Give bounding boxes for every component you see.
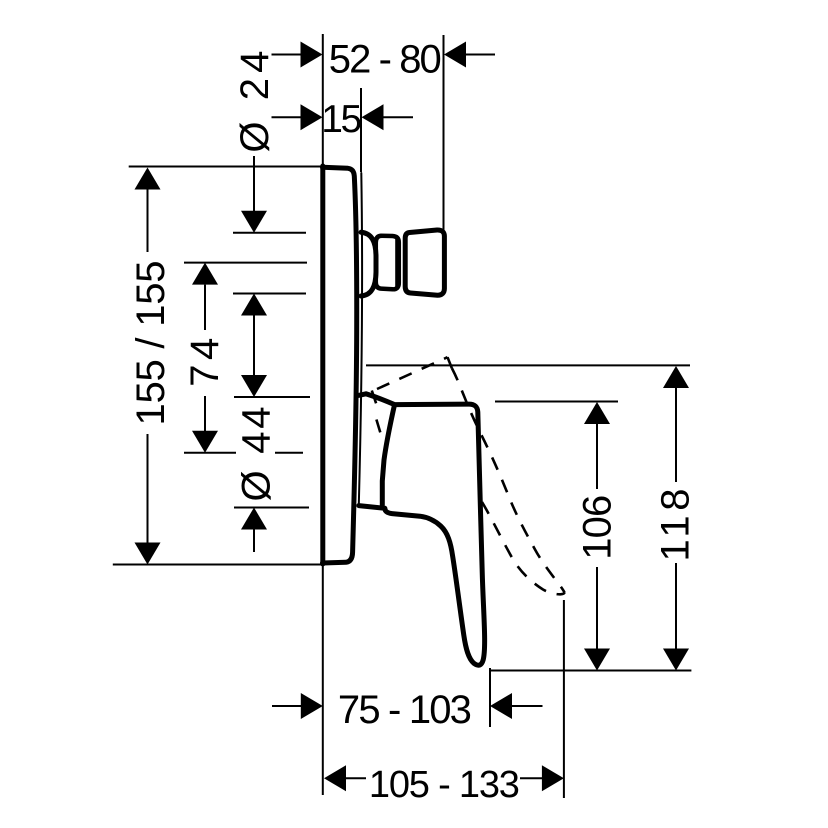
extension line handle top y=365.4 xyxy=(366,364,690,366)
extension line wall plane x=323 xyxy=(322,34,324,795)
dimension 106 xyxy=(575,402,619,671)
dashed corner xyxy=(448,357,452,368)
dimension Ø44 xyxy=(235,375,279,552)
dimension 74 xyxy=(183,263,227,453)
dimension 155/155 xyxy=(129,168,173,565)
extension line plate bottom y=564.5 xyxy=(113,564,321,566)
extension line dashed tip x=564 xyxy=(563,600,565,798)
dimension 15 xyxy=(272,98,414,141)
knob cap xyxy=(405,230,444,295)
plate face inner line xyxy=(359,173,362,505)
svg-text:118: 118 xyxy=(654,489,698,562)
dimension 118 xyxy=(654,366,698,671)
escutcheon plate outline xyxy=(323,166,363,564)
extension line lever top y=401.5 xyxy=(495,401,618,403)
extension line handle tip x=490 xyxy=(489,668,491,727)
svg-text:Ø 44: Ø 44 xyxy=(235,407,279,502)
dashed outer blade curve xyxy=(452,368,565,593)
svg-text:105 - 133: 105 - 133 xyxy=(369,764,520,806)
tick 74 top y=262.6 xyxy=(184,262,307,264)
diverter knob xyxy=(361,230,444,296)
handle base ledge xyxy=(359,506,385,509)
handle neck inner edge xyxy=(382,405,394,505)
dashed inner blade curve xyxy=(482,502,565,594)
extension line plate face x=361 xyxy=(360,88,362,172)
knob dome xyxy=(361,232,376,296)
knob cylinder xyxy=(376,236,399,290)
svg-text:106: 106 xyxy=(575,495,619,560)
dimension 105-133 xyxy=(324,764,564,806)
svg-text:15: 15 xyxy=(321,98,362,141)
dimension 75-103 xyxy=(272,688,543,732)
lever handle (solid) xyxy=(359,394,485,665)
dashed handle alternate position xyxy=(372,357,565,594)
dimension Ø24 xyxy=(233,51,277,376)
tick 74 bottom y=452.8 xyxy=(184,452,236,454)
dashed neck edge near plate xyxy=(372,391,381,435)
tick knob top y=232.8 xyxy=(233,232,306,234)
dimension 52-80 xyxy=(272,38,496,82)
extension baseline y=670.5 xyxy=(489,670,691,672)
extension line plate top y=166.5 xyxy=(129,166,321,168)
dashed top edge xyxy=(377,357,448,389)
tick 44 bottom y=507.5 xyxy=(234,507,309,509)
tick knob bottom y=293.5 xyxy=(233,293,306,295)
svg-text:155 / 155: 155 / 155 xyxy=(129,261,173,426)
svg-text:75 - 103: 75 - 103 xyxy=(338,688,472,732)
tick 44 top y=397 xyxy=(234,396,310,398)
svg-text:52 - 80: 52 - 80 xyxy=(329,38,442,82)
extension line knob face x=443.5 xyxy=(443,35,445,230)
